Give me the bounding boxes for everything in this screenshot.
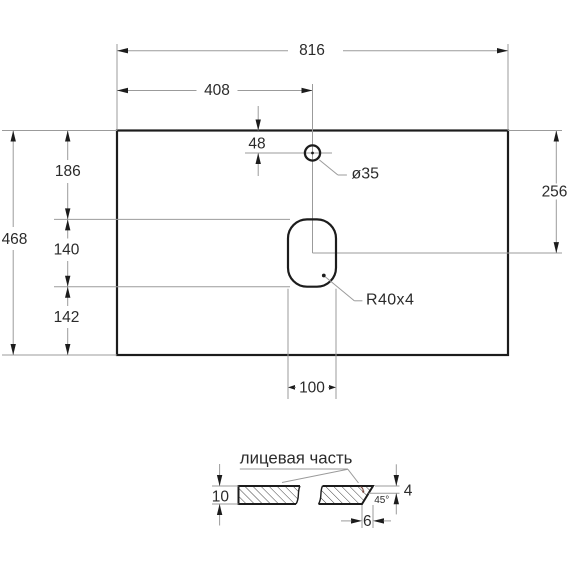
svg-text:лицевая часть: лицевая часть (240, 449, 353, 468)
svg-text:48: 48 (248, 135, 265, 152)
svg-text:100: 100 (299, 380, 325, 397)
svg-text:408: 408 (204, 82, 230, 99)
svg-text:816: 816 (299, 42, 325, 59)
svg-text:256: 256 (542, 184, 568, 201)
svg-text:6: 6 (363, 513, 372, 530)
svg-text:468: 468 (2, 231, 28, 248)
svg-text:45°: 45° (374, 495, 389, 506)
svg-text:4: 4 (404, 483, 413, 500)
svg-text:142: 142 (54, 309, 80, 326)
svg-text:186: 186 (55, 163, 81, 180)
svg-text:R40x4: R40x4 (366, 292, 414, 309)
svg-text:10: 10 (212, 489, 230, 506)
svg-text:ø35: ø35 (352, 166, 380, 183)
svg-text:140: 140 (54, 242, 80, 259)
